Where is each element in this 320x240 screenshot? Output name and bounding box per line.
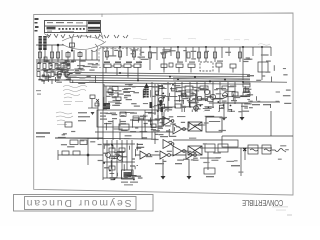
svg-text:Seymour Duncan: Seymour Duncan xyxy=(25,197,132,208)
svg-text:CONVERTIBLE: CONVERTIBLE xyxy=(242,198,283,209)
